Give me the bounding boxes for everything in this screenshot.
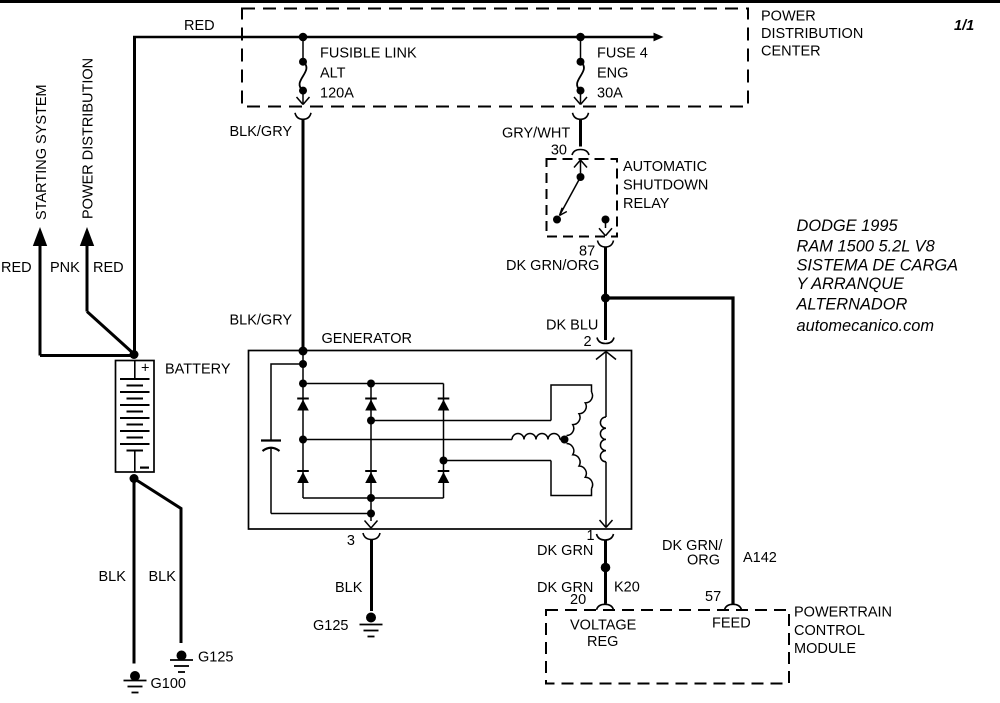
relay switch blade with arrowhead (560, 177, 581, 216)
svg-text:VOLTAGE: VOLTAGE (570, 618, 637, 634)
fusible link ALT 120A symbol (302, 37, 304, 58)
svg-text:GRY/WHT: GRY/WHT (502, 126, 570, 142)
wire BLK generator to G125 (370, 540, 373, 612)
svg-text:30: 30 (551, 143, 567, 159)
svg-text:RELAY: RELAY (623, 196, 670, 212)
splice junction dot (601, 294, 610, 303)
generator terminal 2 pin arrow (596, 352, 606, 360)
svg-text:Y ARRANQUE: Y ARRANQUE (797, 275, 906, 293)
svg-text:CENTER: CENTER (761, 44, 821, 60)
svg-text:RED: RED (1, 260, 32, 276)
ground G125 center (366, 613, 376, 623)
battery cell plates (134, 361, 136, 380)
svg-text:RAM 1500 5.2L V8: RAM 1500 5.2L V8 (797, 238, 936, 256)
capacitor C1 (261, 439, 281, 441)
wire BLK/GRY fusible link to generator (302, 119, 305, 352)
svg-text:FUSE 4: FUSE 4 (597, 46, 648, 62)
junction dot battery positive (130, 350, 139, 359)
relay pin 87 lead and arrow (605, 220, 607, 229)
svg-text:ENG: ENG (597, 66, 628, 82)
wire DK GRN/ORG relay 87 to splice (604, 247, 607, 299)
svg-text:GENERATOR: GENERATOR (322, 331, 413, 347)
svg-text:BLK: BLK (99, 569, 127, 585)
svg-text:DODGE 1995: DODGE 1995 (797, 217, 899, 235)
connector at relay pin 30 (572, 150, 589, 156)
junction dot fusible link tap (299, 33, 308, 42)
connector at generator terminal 2 (597, 338, 614, 344)
diode D3 (438, 398, 450, 400)
rectifier top rail (303, 383, 444, 385)
svg-text:ALT: ALT (320, 66, 346, 82)
junction dot generator B+ entry (299, 347, 308, 356)
svg-text:DK GRN/ORG: DK GRN/ORG (506, 258, 599, 274)
junction dot capacitor tap (299, 360, 307, 368)
svg-text:FEED: FEED (712, 616, 751, 632)
relay U1 switch common dot (577, 173, 585, 181)
svg-text:ORG: ORG (687, 553, 720, 569)
svg-text:DK GRN: DK GRN (537, 543, 593, 559)
svg-text:REG: REG (587, 634, 618, 650)
svg-text:BATTERY: BATTERY (165, 362, 231, 378)
svg-text:DISTRIBUTION: DISTRIBUTION (761, 26, 863, 42)
wire BLK battery to G125 (134, 479, 181, 644)
connector at PCM voltage reg pin (597, 604, 614, 610)
capacitor return wire to terminal 3 node (271, 513, 371, 515)
junction dot bottom rail (367, 494, 375, 502)
connector at PCM feed pin (725, 604, 742, 610)
svg-text:MODULE: MODULE (794, 641, 856, 657)
diode column 2 line (370, 384, 372, 499)
ground G100 (130, 671, 140, 681)
svg-text:CONTROL: CONTROL (794, 623, 865, 639)
svg-text:K20: K20 (614, 580, 640, 596)
relay pin 30 arrow (574, 160, 581, 168)
svg-text:POWER DISTRIBUTION: POWER DISTRIBUTION (81, 58, 97, 219)
svg-text:A142: A142 (743, 550, 777, 566)
svg-text:DK BLU: DK BLU (546, 318, 598, 334)
junction dot fuse tap (576, 33, 585, 42)
svg-text:SHUTDOWN: SHUTDOWN (623, 178, 708, 194)
stator winding phase B coil (567, 392, 593, 436)
splice K20 junction dot (601, 563, 611, 573)
wire DK GRN/ORG splice to A142 feed (606, 298, 734, 605)
off-page arrow POWER DISTRIBUTION (86, 244, 89, 312)
svg-text:automecanico.com: automecanico.com (797, 317, 935, 335)
svg-text:G100: G100 (151, 676, 186, 692)
junction dot battery negative (130, 474, 139, 483)
svg-text:1/1: 1/1 (954, 18, 974, 34)
top border bar (0, 0, 1000, 3)
wire RED from battery to PDC bus (133, 37, 136, 354)
junction dot rectifier top rail middle (367, 380, 375, 388)
connector below relay pin 87 (598, 241, 614, 248)
junction dot phase A (299, 436, 307, 444)
wire BLK battery to G100 (133, 479, 136, 664)
connector below fusible link (295, 113, 311, 120)
svg-text:POWERTRAIN: POWERTRAIN (794, 605, 892, 621)
svg-text:FUSIBLE LINK: FUSIBLE LINK (320, 46, 417, 62)
automatic shutdown relay dashed box (547, 159, 618, 237)
svg-text:BLK/GRY: BLK/GRY (230, 124, 293, 140)
rectifier bottom rail (303, 497, 444, 499)
off-page arrow STARTING SYSTEM (39, 244, 42, 356)
svg-text:120A: 120A (320, 86, 354, 102)
wire phase C to stator (444, 460, 552, 462)
stator neutral junction dot (561, 436, 569, 444)
ground G125 left (177, 651, 187, 661)
svg-text:+: + (141, 361, 149, 377)
stator winding phase A coil (512, 434, 560, 440)
generator terminal 3 lead (370, 498, 372, 521)
svg-text:PNK: PNK (50, 260, 80, 276)
svg-text:30A: 30A (597, 86, 623, 102)
svg-text:G125: G125 (313, 618, 348, 634)
stator winding phase B outline (551, 385, 592, 421)
generator terminal 1 pin arrow (600, 520, 607, 528)
wire phase B to stator (371, 420, 551, 422)
diode D5 (365, 470, 377, 472)
junction dot capacitor return (367, 510, 375, 518)
svg-text:SISTEMA DE CARGA: SISTEMA DE CARGA (797, 257, 959, 275)
svg-text:20: 20 (570, 592, 586, 608)
rotor field winding L1 coil (600, 417, 606, 462)
svg-text:STARTING SYSTEM: STARTING SYSTEM (34, 84, 50, 220)
diode D6 (438, 470, 450, 472)
capacitor C1 branch wire (271, 364, 303, 440)
svg-text:BLK: BLK (335, 580, 363, 596)
stator winding phase C coil (567, 444, 593, 489)
battery BATT box (116, 361, 155, 473)
wire PNK diagonal to battery positive (87, 312, 134, 355)
wire DK GRN terminal 1 to splice (604, 540, 607, 565)
connector at generator terminal 3 (363, 533, 380, 540)
svg-text:AUTOMATIC: AUTOMATIC (623, 159, 707, 175)
wire DK BLU splice to generator terminal 2 (604, 298, 607, 340)
connector below fuse 4 (573, 113, 589, 120)
bus arrowhead (654, 33, 664, 42)
generator internal B+ lead (302, 351, 304, 384)
relay contact dot pin 87 (602, 216, 610, 224)
wire phase A to stator (303, 439, 512, 441)
stator winding phase C outline (551, 461, 592, 496)
powertrain control module dashed box (546, 610, 789, 684)
junction dot rectifier top rail left (299, 380, 307, 388)
diode D1 (297, 398, 309, 400)
rotor field winding lead lower (605, 462, 607, 521)
fuse F4 ENG 30A symbol (580, 37, 582, 58)
wire RED starting system to battery positive (40, 354, 134, 357)
svg-text:2: 2 (584, 334, 592, 350)
svg-text:G125: G125 (198, 650, 233, 666)
rotor field winding lead upper (605, 352, 607, 418)
svg-text:1: 1 (587, 528, 595, 544)
generator GEN box (249, 351, 632, 530)
svg-text:3: 3 (347, 533, 355, 549)
wire GRY/WHT fuse to relay pin 30 (579, 119, 582, 147)
junction dot phase B (367, 417, 375, 425)
power distribution center dashed box (242, 9, 748, 107)
svg-text:RED: RED (93, 260, 124, 276)
diode D2 (365, 398, 377, 400)
diode D4 (297, 470, 309, 472)
diode column 3 line (443, 384, 445, 499)
svg-text:POWER: POWER (761, 9, 816, 25)
svg-text:57: 57 (705, 589, 721, 605)
junction dot phase C (440, 457, 448, 465)
svg-text:ALTERNADOR: ALTERNADOR (796, 296, 908, 314)
connector at generator terminal 1 (597, 534, 614, 540)
relay contact dot NC (553, 216, 561, 224)
svg-text:BLK/GRY: BLK/GRY (230, 313, 293, 329)
svg-text:RED: RED (184, 18, 215, 34)
generator terminal 3 pin arrow (365, 521, 372, 529)
diode column 1 line (302, 384, 304, 499)
svg-text:BLK: BLK (149, 569, 177, 585)
wire DK GRN splice to PCM (604, 568, 607, 604)
battery minus sign (140, 467, 149, 469)
